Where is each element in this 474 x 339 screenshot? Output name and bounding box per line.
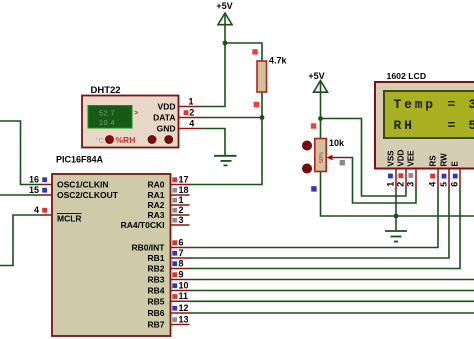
IC U1 PIC16F84A body — [52, 155, 171, 337]
junction dot DATA node — [260, 115, 265, 120]
svg-text:1602 LCD: 1602 LCD — [387, 71, 427, 81]
svg-text:VDD: VDD — [158, 102, 176, 112]
DHT22 LCD screen — [88, 106, 139, 129]
wire +5V branch to LCD VDD — [321, 119, 407, 197]
junction dot +5V resistor branch — [223, 41, 228, 46]
svg-text:RH: RH — [394, 118, 415, 133]
pin RA1 18 — [147, 185, 189, 200]
svg-text:6: 6 — [179, 237, 184, 247]
svg-text:>: > — [134, 108, 139, 117]
pin RS 4 of LCD — [428, 155, 438, 188]
svg-text:13: 13 — [179, 314, 189, 324]
svg-text:=: = — [448, 97, 456, 112]
pin VEE 3 of LCD — [406, 150, 416, 188]
wire +5V branch to resistor top — [225, 43, 262, 61]
pot wiper pin square — [340, 160, 345, 165]
svg-text:3: 3 — [469, 97, 474, 112]
svg-text:+5V: +5V — [308, 71, 324, 81]
LCD screen — [384, 91, 474, 138]
wire DHT22 DATA to node — [201, 117, 263, 119]
wire +5V 2 down to pot top — [320, 92, 322, 139]
svg-text:50%: 50% — [319, 152, 325, 163]
svg-text:11: 11 — [179, 291, 189, 301]
svg-text:52.7: 52.7 — [99, 109, 115, 118]
svg-text:OSC2/CLKOUT: OSC2/CLKOUT — [57, 190, 119, 200]
svg-text:4.7k: 4.7k — [269, 55, 288, 65]
pin VSS 1 of LCD — [386, 150, 396, 188]
pin RB5 11 — [147, 291, 189, 306]
svg-text:PIC16F84A: PIC16F84A — [56, 155, 104, 165]
wire OSC1 loop to left edge — [0, 121, 42, 185]
svg-text:18: 18 — [179, 185, 189, 195]
pin RA0 17 — [147, 174, 189, 189]
svg-text:4: 4 — [189, 118, 194, 128]
ground symbol below LCD VSS — [385, 231, 407, 242]
svg-text:2: 2 — [179, 205, 184, 215]
LCD LCD1 1602 body — [375, 71, 474, 169]
pin RB4 10 — [147, 280, 189, 295]
svg-text:2: 2 — [189, 107, 194, 117]
wire RB6 to right edge — [189, 312, 474, 314]
pin RB0/INT 6 — [131, 237, 189, 252]
svg-text:E: E — [451, 161, 460, 167]
svg-text:5: 5 — [439, 182, 449, 187]
svg-text:10: 10 — [179, 280, 189, 290]
svg-text:1: 1 — [189, 97, 194, 107]
svg-text:2: 2 — [396, 182, 406, 187]
wire LCD VSS to ground rail — [395, 187, 397, 216]
svg-text:%RH: %RH — [116, 135, 136, 145]
svg-text:RA1: RA1 — [147, 190, 164, 200]
pot terminal dot bottom — [302, 164, 311, 173]
svg-text:3: 3 — [406, 182, 416, 187]
svg-text:RB5: RB5 — [147, 296, 164, 306]
svg-text:10k: 10k — [329, 138, 345, 148]
pin DATA 2 of DHT22 — [153, 107, 200, 122]
svg-text:RB0/INT: RB0/INT — [131, 243, 165, 253]
wire RB4 to right edge — [189, 290, 474, 292]
potentiometer 10k — [302, 123, 346, 191]
svg-text:°C: °C — [96, 136, 105, 145]
wire pot bottom to ground rail — [321, 172, 474, 217]
wire +5V rail to DHT22 VDD — [201, 24, 226, 107]
svg-text:5: 5 — [469, 118, 474, 133]
wire ground stub below rail — [395, 216, 397, 230]
power +5V symbol 2 — [308, 71, 327, 92]
pin RB7 13 — [147, 314, 189, 329]
svg-text:RB1: RB1 — [147, 253, 164, 263]
svg-text:8: 8 — [179, 258, 184, 268]
svg-text:1: 1 — [179, 195, 184, 205]
svg-text:RW: RW — [440, 153, 449, 167]
pin RA3 2 — [147, 205, 189, 220]
pin RB3 9 — [147, 269, 189, 284]
DHT22 indicator dot 1 — [148, 136, 156, 144]
wire RB3 to right edge — [189, 279, 474, 281]
junction dot ground rail — [394, 214, 399, 219]
DHT22 indicator dot 2 — [165, 136, 173, 144]
svg-text:RB7: RB7 — [147, 320, 164, 330]
svg-text:=: = — [448, 118, 456, 133]
pot wiper arrow — [331, 157, 346, 159]
pin OSC1/CLKIN 16 — [29, 174, 109, 189]
pin RW 5 of LCD — [439, 153, 449, 188]
svg-text:3: 3 — [179, 215, 184, 225]
wire MCLR loop to left edge — [0, 215, 42, 266]
svg-text:RA0: RA0 — [147, 180, 164, 190]
svg-text:RA2: RA2 — [147, 200, 164, 210]
pot top pin square — [311, 123, 316, 128]
pot bottom pin square — [311, 186, 316, 191]
svg-text:4: 4 — [428, 182, 438, 187]
svg-text:VSS: VSS — [387, 150, 396, 167]
svg-text:VDD: VDD — [397, 149, 406, 166]
DHT22 legend C %RH — [96, 135, 136, 145]
wire OSC2 to left edge — [0, 194, 42, 196]
wire RB2 to LCD E — [189, 187, 460, 269]
pin OSC2/CLKOUT 15 — [29, 185, 119, 200]
svg-text:10.4: 10.4 — [99, 118, 115, 127]
svg-text:MCLR: MCLR — [57, 214, 82, 224]
svg-text:RB3: RB3 — [147, 275, 164, 285]
svg-text:12: 12 — [179, 303, 189, 313]
svg-text:DATA: DATA — [153, 113, 175, 123]
svg-text:9: 9 — [179, 269, 184, 279]
svg-text:4: 4 — [34, 205, 39, 215]
svg-text:GND: GND — [157, 124, 176, 134]
svg-text:+5V: +5V — [216, 1, 232, 11]
svg-text:Temp: Temp — [394, 97, 436, 112]
pin RA4/T0CKI 3 — [121, 215, 190, 230]
svg-text:6: 6 — [450, 182, 460, 187]
ground symbol below DHT22 — [214, 156, 237, 166]
svg-text:7: 7 — [179, 248, 184, 258]
svg-text:DHT22: DHT22 — [91, 85, 121, 96]
pin VDD 2 of LCD — [396, 149, 406, 187]
svg-text:RA3: RA3 — [147, 210, 164, 220]
svg-text:16: 16 — [29, 174, 39, 184]
svg-text:VEE: VEE — [407, 150, 416, 167]
svg-text:OSC1/CLKIN: OSC1/CLKIN — [57, 180, 108, 190]
svg-text:RB2: RB2 — [147, 264, 164, 274]
wire DHT22 GND to ground — [201, 129, 226, 156]
wire RB0 to LCD RS — [189, 187, 438, 248]
power +5V symbol 1 — [216, 1, 232, 25]
junction dot +5V pot branch — [318, 116, 323, 121]
pin MCLR 4 — [34, 205, 82, 224]
svg-text:15: 15 — [29, 185, 39, 195]
pin VDD 1 of DHT22 — [158, 97, 201, 112]
svg-text:1: 1 — [386, 182, 396, 187]
pin RB6 12 — [147, 303, 189, 318]
svg-text:RA4/T0CKI: RA4/T0CKI — [121, 220, 165, 230]
wire RB1 to LCD RW — [189, 187, 449, 258]
wire resistor bottom through DATA node down to RA0 — [189, 92, 262, 185]
sensor DHT22 body — [82, 85, 179, 148]
pot terminal dot top — [302, 141, 311, 150]
pin E 6 of LCD — [450, 161, 460, 188]
wire RB5 to right edge — [189, 300, 474, 302]
pin RB1 7 — [147, 248, 189, 263]
pin GND 4 of DHT22 — [157, 118, 201, 133]
svg-text:RB6: RB6 — [147, 308, 164, 318]
svg-text:RB4: RB4 — [147, 286, 164, 296]
pin RA2 1 — [147, 195, 189, 210]
svg-text:RS: RS — [429, 155, 438, 167]
wire pot wiper to LCD VEE — [346, 158, 416, 204]
pin RB2 8 — [147, 258, 189, 273]
resistor 4.7k — [252, 49, 287, 107]
svg-text:17: 17 — [179, 174, 189, 184]
